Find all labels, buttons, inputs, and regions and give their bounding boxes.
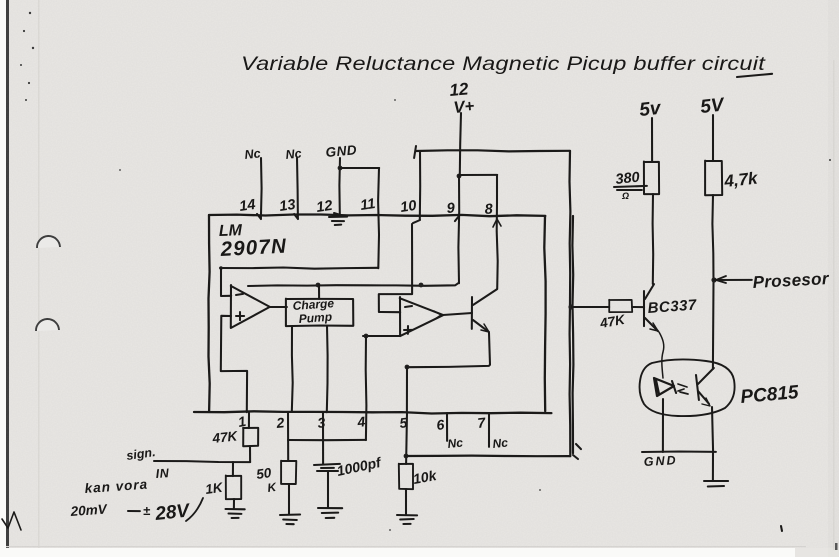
transistor Q1 base bar (471, 297, 473, 329)
wire pins 2-3-4 link (288, 439, 366, 441)
pin 7 NC stub (488, 413, 490, 447)
node emitter pin5 (405, 365, 410, 370)
svg-text:Nc: Nc (285, 146, 302, 162)
svg-text:Nc: Nc (492, 435, 509, 451)
U1B output arrow (434, 311, 441, 319)
IC U1 LM2907N body (194, 215, 551, 414)
wire U1A output (270, 306, 287, 308)
transistor Q1 emitter (473, 320, 489, 332)
wire U1B output (443, 313, 472, 315)
wire GND stub down (338, 158, 341, 214)
stray tick 3 (781, 526, 782, 531)
resistor R3 50K box (281, 461, 296, 484)
top rail left hook (414, 146, 416, 158)
pin 14 NC stub (260, 158, 263, 219)
svg-text:Prosesor: Prosesor (752, 269, 830, 292)
node pin5 junction (404, 454, 409, 459)
ground R2 (226, 508, 245, 510)
wire pin9 riser (457, 175, 460, 283)
svg-text:Pump: Pump (298, 310, 332, 326)
Q2 collector (645, 284, 654, 299)
node plus pin4 (364, 334, 369, 339)
wire Q2 emitter down (659, 332, 664, 378)
wire plus input (221, 316, 247, 412)
wire Q1 emitter down (407, 333, 490, 367)
wire pin11 riser (377, 168, 380, 268)
stray tick 1 (576, 444, 581, 449)
phototransistor emitter arrow (702, 398, 710, 406)
svg-text:13: 13 (278, 197, 296, 215)
node prosesor junction (711, 277, 716, 282)
op-amp U1B triangle (400, 297, 444, 336)
resistor R4 10K box (399, 464, 413, 490)
op-amp U1A minus (236, 294, 243, 295)
resistor R6 380 box (644, 162, 659, 195)
ground R4 (397, 514, 417, 516)
wire charge pump pin2 drop (291, 326, 294, 412)
resistor R5 47K box (609, 300, 632, 312)
svg-text:5v: 5v (638, 98, 663, 121)
op-amp U1B plus (404, 329, 412, 331)
punch hole top (37, 236, 60, 248)
svg-text:50: 50 (255, 465, 272, 482)
svg-text:380: 380 (615, 170, 641, 188)
svg-text:47K: 47K (211, 428, 239, 446)
wire photo emitter down (712, 407, 713, 452)
svg-text:10: 10 (399, 198, 417, 216)
pin 12 tick (334, 213, 344, 216)
svg-text:1K: 1K (204, 480, 224, 497)
svg-text:BC337: BC337 (647, 297, 697, 317)
svg-text:Nc: Nc (447, 435, 464, 451)
U2 PC815 outline (640, 359, 735, 416)
wire pin4 riser (365, 336, 368, 440)
ground U2 (704, 480, 728, 482)
wire GND to pin11 (340, 167, 379, 169)
svg-text:20mV: 20mV (69, 501, 108, 519)
ground C1 (318, 507, 342, 509)
wire pin5 riser internal (406, 367, 408, 412)
wire pin10 riser (419, 151, 421, 220)
stray tick 2 (573, 455, 578, 459)
wire pin5 riser (405, 413, 408, 464)
capacitor C1 plates (314, 464, 340, 465)
wire pin5 to right rail (406, 455, 570, 458)
op-amp U1A plus (236, 315, 244, 317)
title end flourish (737, 74, 772, 77)
wire V+ riser (460, 113, 461, 175)
wire 5v to R6 (651, 118, 653, 162)
svg-text:Nc: Nc (244, 146, 261, 162)
node V+ junction (457, 174, 462, 179)
wire charge pump pin3 drop (326, 326, 329, 412)
wire C1 to ground (327, 472, 329, 507)
node minus rail corner (219, 266, 223, 270)
LED D1 triangle (654, 378, 674, 396)
wire rail to R5 (572, 306, 609, 308)
phototransistor base bar (696, 375, 699, 400)
phototransistor emitter (698, 391, 709, 404)
Q2 emitter (645, 318, 658, 331)
wire pin3 riser (322, 413, 324, 464)
label 28V flourish (186, 498, 203, 521)
wire U1B plus input (363, 335, 400, 337)
pin 8 arrow (493, 219, 501, 227)
wire to prosesor (714, 279, 752, 281)
wire R6 to Q2 collector (652, 194, 655, 284)
wire right rail (570, 151, 574, 456)
resistor R1 47K box (243, 428, 258, 446)
svg-text:±: ± (143, 503, 151, 518)
svg-text:14: 14 (238, 197, 256, 215)
wire R7 down (712, 195, 713, 369)
wire LED cathode down (662, 399, 664, 452)
pin 6 NC stub (446, 413, 448, 441)
pin 13 NC stub (296, 158, 299, 219)
LED light arrows (678, 384, 688, 394)
wire pin11 to minus rail (220, 268, 378, 269)
op-amp U1B minus (405, 306, 412, 307)
wire input to R2 (232, 462, 234, 476)
Q2 emitter arrow (650, 323, 658, 331)
wire to ground (712, 452, 714, 480)
wire pin2 riser (287, 413, 289, 461)
wire R1 to input (249, 446, 251, 462)
wire internal rail (248, 283, 458, 286)
node charge pump top (316, 283, 321, 288)
phototransistor collector (698, 368, 714, 384)
ground symbol at pin 12 (329, 216, 347, 218)
wire R3 to ground (288, 484, 290, 514)
wire pin1 stub (248, 413, 250, 428)
wire GND line (642, 450, 716, 453)
ground R3 (280, 513, 300, 516)
node internal rail (419, 283, 424, 288)
svg-text:GND: GND (325, 142, 358, 160)
punch hole bottom (36, 319, 59, 331)
transistor Q1 collector (473, 289, 497, 305)
svg-text:2907N: 2907N (219, 235, 288, 261)
svg-text:Variable Reluctance Magnetic P: Variable Reluctance Magnetic Picup buffe… (241, 53, 767, 75)
Q2 base bar (643, 291, 645, 326)
stray squiggle left (2, 512, 21, 530)
wire R4 to ground (405, 489, 407, 514)
svg-text:IN: IN (155, 466, 170, 481)
svg-text:9: 9 (446, 200, 455, 217)
op-amp U1A triangle (231, 285, 270, 328)
pin 9 tick (455, 216, 459, 221)
node GND junction (338, 166, 343, 171)
Q1 emitter arrow (481, 324, 489, 332)
wire 5V to R7 (712, 115, 714, 161)
svg-text:GND: GND (643, 453, 677, 469)
charge pump box (286, 299, 353, 327)
resistor R7 4.7k box (705, 161, 722, 196)
resistor R2 1K box (226, 475, 241, 499)
wire pin8 riser collector (497, 175, 498, 289)
svg-text:Ω: Ω (621, 191, 629, 201)
wire pin10 feedback loop (379, 224, 412, 312)
wire charge pump top riser (318, 285, 320, 299)
wire R2 to ground (233, 499, 235, 508)
wire minus input drop (221, 268, 231, 296)
LED D1 cathode bar (672, 381, 676, 393)
svg-text:12: 12 (315, 198, 333, 216)
wire V+ to pin8 (459, 174, 497, 176)
wire R5 to base (632, 306, 644, 308)
wire top rail (416, 150, 570, 151)
node right rail junction (568, 304, 573, 309)
svg-text:4,7k: 4,7k (722, 168, 759, 191)
wire signal input (154, 461, 250, 462)
svg-text:11: 11 (359, 196, 376, 214)
svg-text:V+: V+ (453, 97, 475, 117)
